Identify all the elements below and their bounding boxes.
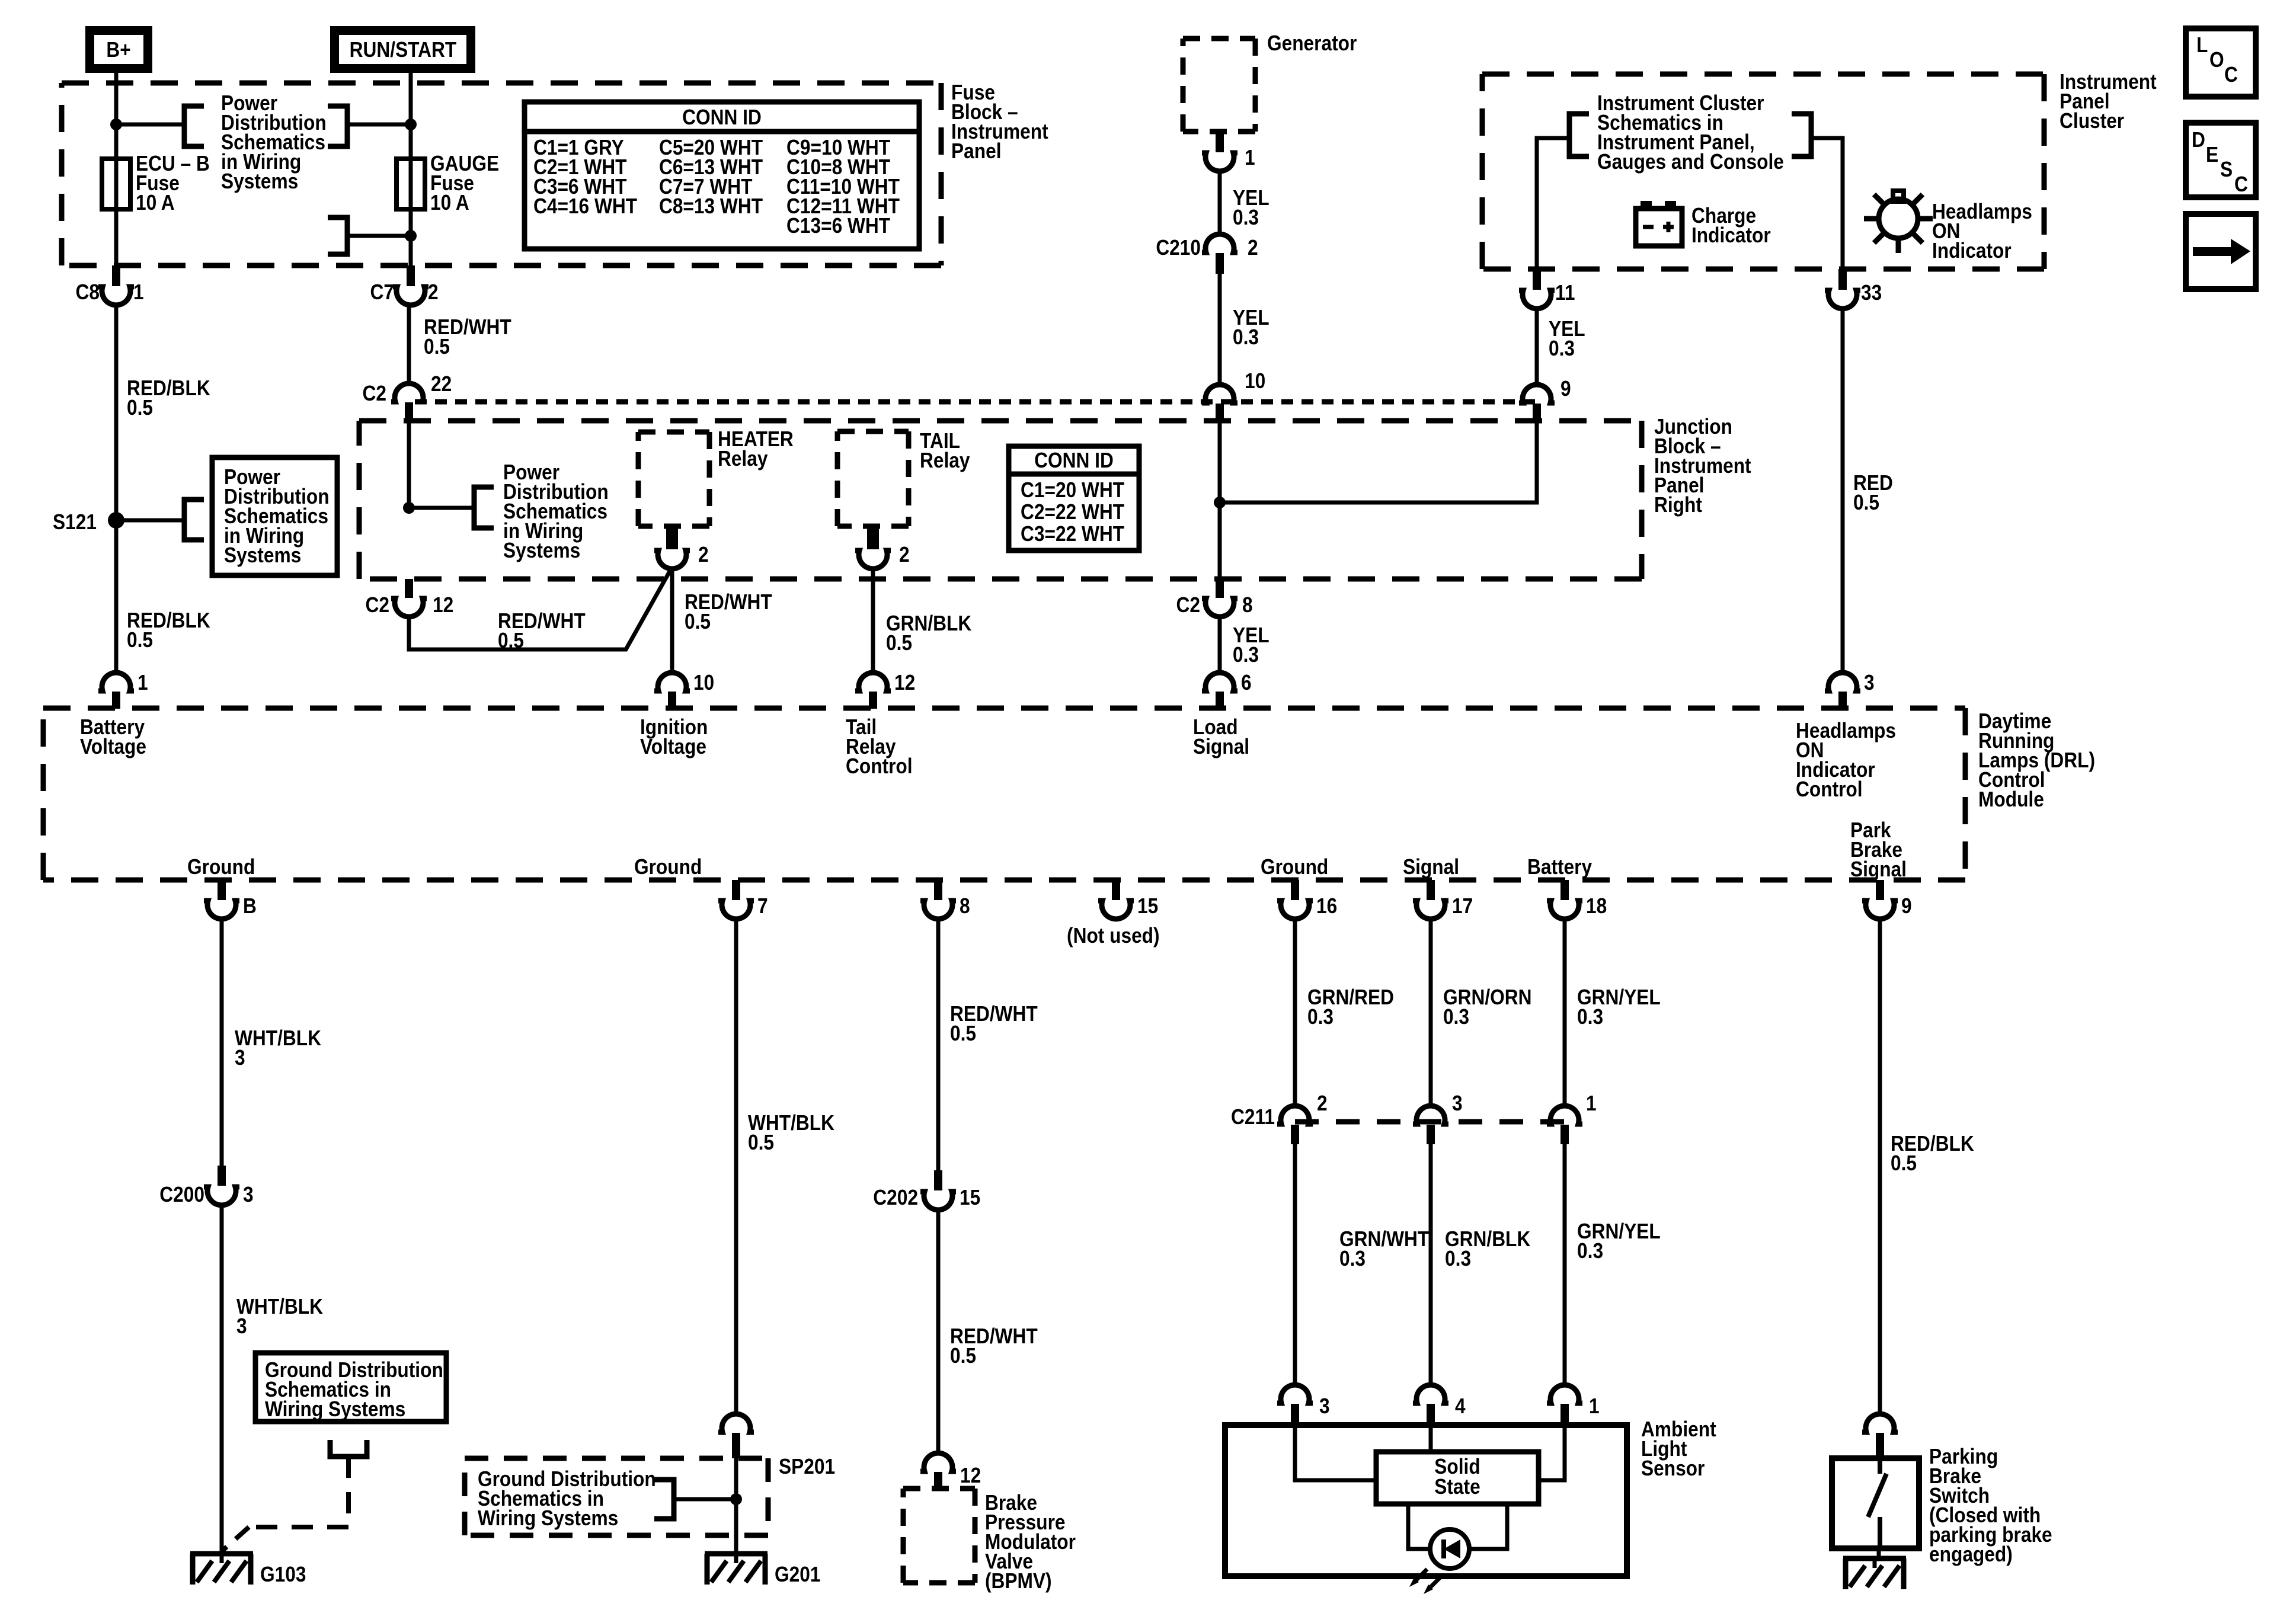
solid state box bbox=[1376, 1452, 1539, 1504]
svg-text:0.5: 0.5 bbox=[127, 628, 153, 652]
svg-text:CONN ID: CONN ID bbox=[1034, 449, 1114, 472]
generator pin 1 connector bbox=[1202, 132, 1255, 171]
wire S121 to bracket bbox=[116, 518, 184, 523]
wire label GRN/WHT 0.3 bbox=[1339, 1227, 1430, 1270]
dashed reference path to G103 bbox=[222, 1457, 348, 1551]
svg-text:Indicator: Indicator bbox=[1932, 239, 2012, 263]
svg-text:C13=6 WHT: C13=6 WHT bbox=[786, 214, 890, 238]
bracket to power distribution note (junction block) bbox=[474, 487, 494, 528]
generator dashed box bbox=[1183, 39, 1255, 132]
svg-text:Wiring Systems: Wiring Systems bbox=[265, 1397, 405, 1421]
wire C7 to C2-22 bbox=[407, 303, 411, 384]
svg-text:Battery: Battery bbox=[1527, 855, 1592, 879]
CONN ID table (junction block) bbox=[1009, 446, 1139, 550]
light arrows bbox=[1409, 1569, 1441, 1594]
wire ALS pin 4 internal bbox=[1429, 1425, 1433, 1452]
wire C200 to G103 bbox=[220, 1203, 224, 1554]
wire label WHT/BLK 3 (upper) bbox=[235, 1026, 321, 1070]
wire ALS pin 3 internal bbox=[1295, 1425, 1376, 1480]
svg-text:0.3: 0.3 bbox=[1307, 1005, 1334, 1029]
wire label YEL 0.3 (load signal) bbox=[1233, 623, 1269, 667]
TAIL relay dashed box bbox=[837, 431, 909, 526]
svg-text:Indicator: Indicator bbox=[1691, 223, 1771, 247]
wire DRL pin 8 to C202 bbox=[936, 917, 941, 1170]
svg-text:G201: G201 bbox=[775, 1563, 820, 1586]
wire heater pin2 to DRL pin 10 bbox=[670, 567, 674, 675]
wire label RED 0.5 bbox=[1853, 471, 1893, 514]
svg-text:C202: C202 bbox=[873, 1186, 918, 1209]
DRL pin 10 connector bbox=[654, 671, 714, 709]
svg-text:0.3: 0.3 bbox=[1577, 1239, 1603, 1263]
svg-text:2: 2 bbox=[698, 543, 709, 566]
charge indicator battery symbol bbox=[1636, 201, 1682, 246]
svg-text:3: 3 bbox=[236, 1314, 247, 1338]
connector C2 pin 12 bbox=[366, 579, 454, 617]
svg-text:0.5: 0.5 bbox=[1891, 1151, 1917, 1175]
svg-text:Control: Control bbox=[1796, 777, 1863, 801]
svg-text:0.3: 0.3 bbox=[1233, 206, 1259, 229]
photodiode symbol bbox=[1430, 1529, 1469, 1569]
junction node (C2 wire) bbox=[403, 502, 415, 514]
power distribution schematics note (fuse block) bbox=[221, 91, 327, 193]
DRL pin 6 connector bbox=[1202, 671, 1252, 709]
svg-text:17: 17 bbox=[1452, 894, 1473, 918]
svg-text:3: 3 bbox=[243, 1183, 254, 1206]
connector C211 pin 2 bbox=[1231, 1092, 1328, 1144]
ground G201 bbox=[705, 1554, 820, 1586]
DRL pin 15 connector bbox=[1098, 880, 1158, 919]
svg-text:Voltage: Voltage bbox=[640, 735, 706, 758]
power distribution schematics note (junction block) bbox=[503, 460, 609, 562]
svg-text:RUN/START: RUN/START bbox=[350, 38, 457, 62]
wire B+ to C8 bbox=[114, 73, 119, 265]
svg-text:Relay: Relay bbox=[920, 449, 970, 472]
splice SP201 connector bbox=[718, 1414, 835, 1478]
connector C202 pin 15 bbox=[873, 1170, 980, 1210]
wire DRL pin 18 to C211-1 bbox=[1563, 917, 1567, 1108]
wire junction pin10 to C2-8 bbox=[1218, 422, 1222, 579]
svg-text:2: 2 bbox=[428, 280, 439, 304]
svg-text:8: 8 bbox=[1242, 593, 1253, 617]
svg-text:G103: G103 bbox=[260, 1563, 306, 1586]
svg-text:engaged): engaged) bbox=[1929, 1542, 2013, 1566]
connector C211 dashed line bbox=[1295, 1119, 1565, 1125]
bracket to power distribution box bbox=[184, 500, 204, 540]
BPMV pin 12 connector bbox=[920, 1453, 981, 1489]
svg-text:3: 3 bbox=[1319, 1394, 1330, 1418]
headlamps ON indicator label bbox=[1932, 200, 2032, 263]
wire label RED/WHT 0.5 (horizontal run) bbox=[498, 609, 586, 652]
wire to power distribution bracket right bbox=[347, 123, 411, 127]
svg-text:10: 10 bbox=[1245, 369, 1265, 393]
power distribution schematics box (S121) bbox=[212, 457, 337, 575]
ALS pin 3 connector bbox=[1277, 1385, 1330, 1425]
svg-text:Generator: Generator bbox=[1267, 31, 1357, 55]
svg-text:Ground: Ground bbox=[1261, 855, 1328, 879]
IPC pin 11 connector bbox=[1519, 269, 1575, 309]
parking brake switch contacts bbox=[1868, 1458, 1886, 1548]
wire C2-12 to heater relay pin 2 bbox=[409, 567, 672, 649]
DRL pin name Tail Relay Control bbox=[846, 715, 913, 778]
wire label RED/WHT 0.5 (ignition) bbox=[685, 590, 772, 633]
ambient light sensor box bbox=[1225, 1425, 1627, 1576]
junction node on B+ wire bbox=[110, 119, 122, 130]
svg-text:3: 3 bbox=[1452, 1092, 1463, 1115]
svg-text:C7: C7 bbox=[370, 280, 394, 304]
wire bracket to pin 11 bbox=[1537, 138, 1569, 269]
wire C8 to S121 bbox=[114, 303, 119, 520]
svg-text:0.5: 0.5 bbox=[498, 629, 524, 652]
wire tail relay pin2 to DRL pin 12 bbox=[871, 567, 875, 675]
CONN ID table (fuse block) bbox=[525, 102, 919, 249]
DRL pin name Battery Voltage bbox=[80, 715, 146, 758]
svg-text:SP201: SP201 bbox=[779, 1455, 835, 1478]
parking brake switch box bbox=[1832, 1458, 1919, 1548]
svg-text:0.3: 0.3 bbox=[1549, 337, 1575, 360]
wire C2-22 down to junction bbox=[407, 422, 411, 508]
wire DRL pin 17 to C211-3 bbox=[1429, 917, 1433, 1108]
instrument cluster schematics note bbox=[1597, 91, 1784, 174]
fuse block - instrument panel dashed box bbox=[62, 83, 941, 265]
wire label WHT/BLK 0.5 bbox=[748, 1111, 834, 1154]
svg-text:2: 2 bbox=[899, 543, 910, 566]
power feed RUN/START terminal box bbox=[335, 31, 471, 69]
fuse ECU-B 10A symbol bbox=[102, 159, 130, 209]
svg-text:2: 2 bbox=[1248, 236, 1258, 260]
splice S121 bbox=[53, 510, 124, 534]
wire label YEL 0.3 (cluster) bbox=[1549, 317, 1585, 360]
instrument panel cluster dashed box bbox=[1482, 74, 2044, 269]
wire C2-8 to DRL pin 6 bbox=[1218, 614, 1222, 675]
DRL signal label (pin 17) bbox=[1403, 855, 1459, 879]
wire label YEL 0.3 (generator) bbox=[1233, 186, 1269, 229]
wire DRL pin 16 to C211-2 bbox=[1293, 917, 1297, 1108]
svg-text:0.5: 0.5 bbox=[950, 1022, 976, 1045]
svg-text:6: 6 bbox=[1241, 671, 1252, 694]
IPC pin 33 connector bbox=[1825, 269, 1882, 309]
svg-text:Systems: Systems bbox=[224, 543, 301, 567]
wire to power distribution bracket left bbox=[116, 123, 184, 127]
svg-text:0.5: 0.5 bbox=[1853, 491, 1879, 514]
DRL ground label (pin 7) bbox=[634, 855, 702, 879]
wire label GRN/YEL 0.3 (upper) bbox=[1577, 985, 1661, 1029]
svg-text:0.3: 0.3 bbox=[1339, 1247, 1366, 1270]
wire to lower bracket bbox=[347, 234, 411, 238]
svg-text:Ground: Ground bbox=[634, 855, 702, 879]
svg-text:33: 33 bbox=[1861, 281, 1882, 305]
generator label bbox=[1267, 31, 1357, 55]
svg-text:B: B bbox=[243, 894, 257, 918]
svg-text:1: 1 bbox=[137, 671, 148, 694]
wire label GRN/ORN 0.3 bbox=[1443, 985, 1532, 1029]
parking brake switch connector bbox=[1862, 1414, 1898, 1458]
wire ALS pin 1 internal bbox=[1539, 1425, 1565, 1480]
DRL pin 3 connector bbox=[1825, 671, 1875, 709]
svg-text:C8=13 WHT: C8=13 WHT bbox=[659, 194, 763, 218]
instrument cluster bracket right bbox=[1792, 114, 1811, 156]
instrument panel cluster label bbox=[2060, 70, 2157, 133]
svg-text:7: 7 bbox=[757, 894, 768, 918]
svg-text:C: C bbox=[2234, 172, 2248, 196]
ground distribution schematics box bbox=[255, 1353, 446, 1422]
brake pressure modulator valve dashed box bbox=[903, 1489, 975, 1583]
wire label RED/BLK 0.5 (upper) bbox=[127, 376, 210, 420]
svg-text:15: 15 bbox=[1137, 894, 1158, 918]
connector C8 pin 1 bbox=[76, 265, 144, 305]
svg-text:0.5: 0.5 bbox=[685, 610, 711, 633]
ALS pin 4 connector bbox=[1413, 1385, 1466, 1425]
svg-text:Systems: Systems bbox=[221, 169, 298, 193]
svg-text:Relay: Relay bbox=[718, 447, 768, 470]
svg-text:C2=22 WHT: C2=22 WHT bbox=[1021, 500, 1124, 524]
junction node SP201 bbox=[730, 1493, 742, 1505]
svg-text:D: D bbox=[2192, 128, 2205, 152]
wire C202 to BPMV bbox=[936, 1208, 941, 1455]
wire to bracket (G201 box) bbox=[674, 1497, 736, 1502]
DRL pin 15 not used label bbox=[1067, 924, 1160, 948]
wire C211-2 to ALS pin 3 bbox=[1293, 1144, 1297, 1387]
DRL ground label (pin B) bbox=[187, 855, 255, 879]
wire pin 33 to DRL pin 3 bbox=[1841, 306, 1845, 675]
connector C210 pin 2 bbox=[1156, 234, 1258, 274]
charge indicator label bbox=[1691, 204, 1771, 247]
wire DRL pin B to C200 bbox=[220, 917, 224, 1166]
svg-text:(Not used): (Not used) bbox=[1067, 924, 1160, 948]
DRL pin name Load Signal bbox=[1193, 715, 1249, 758]
svg-text:10 A: 10 A bbox=[430, 191, 469, 215]
svg-text:18: 18 bbox=[1586, 894, 1607, 918]
svg-text:0.5: 0.5 bbox=[950, 1344, 976, 1368]
svg-text:2: 2 bbox=[1317, 1092, 1328, 1115]
svg-text:22: 22 bbox=[431, 372, 452, 396]
DRL control module dashed box bbox=[43, 708, 1965, 880]
wire solid state to photodiode right bbox=[1469, 1504, 1507, 1549]
svg-text:Ground: Ground bbox=[187, 855, 255, 879]
svg-text:Control: Control bbox=[846, 754, 913, 778]
svg-text:C2: C2 bbox=[1176, 593, 1200, 617]
fuse block label bbox=[951, 81, 1048, 163]
bracket from Power Distribution Schematics (right) bbox=[328, 106, 347, 146]
wire label RED/BLK 0.5 (park brake) bbox=[1891, 1132, 1974, 1175]
ALS pin 1 connector bbox=[1547, 1385, 1600, 1425]
wire solid state to photodiode left bbox=[1408, 1504, 1430, 1549]
svg-text:9: 9 bbox=[1901, 894, 1912, 918]
connector C7 pin 2 bbox=[370, 265, 439, 305]
svg-text:C: C bbox=[2224, 63, 2238, 87]
wire label RED/WHT 0.5 (upper run) bbox=[950, 1002, 1038, 1045]
DRL pin name Headlamps ON Indicator Control bbox=[1796, 719, 1896, 801]
DRL control module label bbox=[1978, 709, 2095, 811]
bracket to Power Distribution Schematics (left) bbox=[184, 106, 204, 146]
DRL pin 16 connector bbox=[1277, 880, 1337, 919]
HEATER relay label bbox=[718, 427, 794, 470]
wire generator to C210 bbox=[1218, 169, 1222, 236]
svg-text:3: 3 bbox=[1864, 671, 1875, 694]
svg-text:8: 8 bbox=[960, 894, 970, 918]
wire label RED/WHT 0.5 (C7) bbox=[424, 315, 511, 359]
svg-text:B+: B+ bbox=[106, 38, 130, 62]
svg-text:0.3: 0.3 bbox=[1577, 1005, 1603, 1029]
svg-text:Wiring Systems: Wiring Systems bbox=[478, 1506, 618, 1530]
wire junction to bracket (junction block) bbox=[409, 506, 474, 510]
DRL pin 7 connector bbox=[718, 880, 768, 919]
svg-text:0.3: 0.3 bbox=[1233, 643, 1259, 667]
svg-text:S: S bbox=[2220, 158, 2233, 181]
connector C211 pin 1 bbox=[1547, 1092, 1597, 1144]
BPMV label bbox=[985, 1491, 1076, 1593]
svg-text:L: L bbox=[2196, 33, 2208, 57]
wire junction pin 9 down and across bbox=[1220, 422, 1537, 502]
svg-text:C8: C8 bbox=[76, 280, 100, 304]
svg-text:Signal: Signal bbox=[1193, 735, 1249, 758]
svg-text:0.5: 0.5 bbox=[748, 1131, 774, 1154]
junction node on RUN/START wire upper bbox=[405, 119, 417, 130]
wire C211-3 to ALS pin 4 bbox=[1429, 1144, 1433, 1387]
junction node (load signal) bbox=[1214, 497, 1226, 508]
DRL ground label (pin 16) bbox=[1261, 855, 1328, 879]
svg-text:0.5: 0.5 bbox=[127, 396, 153, 420]
svg-text:16: 16 bbox=[1316, 894, 1337, 918]
svg-text:(BPMV): (BPMV) bbox=[985, 1569, 1052, 1593]
wire C211-1 to ALS pin 1 bbox=[1563, 1144, 1567, 1387]
fuse ECU-B label bbox=[136, 152, 210, 215]
power feed B+ terminal box bbox=[90, 31, 148, 69]
svg-text:9: 9 bbox=[1560, 377, 1571, 401]
HEATER relay dashed box bbox=[638, 432, 709, 526]
junction block pin 9 connector bbox=[1519, 377, 1571, 422]
svg-text:1: 1 bbox=[1586, 1092, 1597, 1115]
connector C2 pin 8 bbox=[1176, 579, 1252, 617]
svg-text:11: 11 bbox=[1555, 281, 1575, 305]
fuse GAUGE 10A symbol bbox=[396, 159, 425, 209]
ambient light sensor label bbox=[1641, 1417, 1716, 1480]
junction block pin 10 connector bbox=[1202, 369, 1265, 422]
wire DRL pin 7 to SP201 bbox=[734, 917, 738, 1416]
DRL pin 18 connector bbox=[1547, 880, 1607, 919]
svg-text:0.3: 0.3 bbox=[1233, 325, 1259, 349]
DRL pin 17 connector bbox=[1413, 880, 1473, 919]
wire label RED/BLK 0.5 (lower) bbox=[127, 609, 210, 652]
svg-text:O: O bbox=[2209, 48, 2224, 72]
svg-text:1: 1 bbox=[133, 280, 144, 304]
DRL pin 9 connector bbox=[1862, 880, 1912, 919]
wire label YEL 0.3 (C210) bbox=[1233, 306, 1269, 349]
instrument cluster bracket left bbox=[1569, 114, 1589, 156]
svg-text:Voltage: Voltage bbox=[80, 735, 146, 758]
svg-text:C2: C2 bbox=[363, 382, 386, 405]
svg-text:State: State bbox=[1434, 1475, 1480, 1499]
wire RUN/START to C7 bbox=[409, 73, 413, 265]
wire label GRN/BLK 0.5 bbox=[886, 612, 972, 655]
wire SP201 into box bbox=[734, 1458, 738, 1554]
svg-text:Module: Module bbox=[1978, 788, 2044, 811]
wire label GRN/RED 0.3 bbox=[1307, 985, 1394, 1029]
wire label RED/WHT 0.5 (lower run) bbox=[950, 1324, 1038, 1368]
DRL pin B connector bbox=[204, 880, 257, 919]
wire bracket to pin 33 bbox=[1811, 138, 1843, 269]
svg-text:4: 4 bbox=[1455, 1394, 1466, 1418]
svg-text:C2: C2 bbox=[366, 593, 389, 617]
svg-text:1: 1 bbox=[1589, 1394, 1600, 1418]
svg-text:Systems: Systems bbox=[503, 539, 580, 562]
bracket in G201 box bbox=[654, 1480, 674, 1519]
svg-text:S121: S121 bbox=[53, 510, 97, 534]
svg-text:C200: C200 bbox=[159, 1183, 204, 1206]
ground G103 bbox=[190, 1554, 306, 1586]
junction block label bbox=[1654, 415, 1751, 517]
svg-text:12: 12 bbox=[894, 671, 915, 694]
svg-text:Panel: Panel bbox=[951, 139, 1001, 163]
DRL pin 8 connector bbox=[920, 880, 970, 919]
svg-text:1: 1 bbox=[1245, 146, 1255, 169]
svg-text:10: 10 bbox=[693, 671, 714, 694]
DESC reference box bbox=[2186, 123, 2256, 197]
svg-text:C211: C211 bbox=[1231, 1105, 1275, 1129]
junction node on RUN/START wire lower bbox=[405, 230, 417, 242]
wire label GRN/YEL 0.3 (lower) bbox=[1577, 1219, 1661, 1263]
svg-text:WHT/BLK: WHT/BLK bbox=[236, 1295, 323, 1318]
junction block dashed box bbox=[359, 421, 1642, 579]
svg-text:Right: Right bbox=[1654, 493, 1702, 517]
junction block connector dotted line C2 bbox=[415, 399, 1537, 405]
wire S121 to DRL pin 1 bbox=[114, 520, 119, 675]
ground distribution dashed box (G201) bbox=[465, 1458, 768, 1535]
svg-text:0.5: 0.5 bbox=[424, 335, 450, 359]
wire DRL pin 9 to parking brake switch bbox=[1878, 917, 1882, 1416]
svg-text:C4=16 WHT: C4=16 WHT bbox=[533, 194, 637, 218]
svg-text:C1=20 WHT: C1=20 WHT bbox=[1021, 478, 1124, 502]
wire label GRN/BLK 0.3 bbox=[1445, 1227, 1531, 1270]
svg-text:0.5: 0.5 bbox=[886, 631, 912, 655]
headlamps ON indicator lamp symbol bbox=[1864, 191, 1933, 253]
svg-text:0.3: 0.3 bbox=[1443, 1005, 1469, 1029]
svg-text:12: 12 bbox=[433, 593, 453, 617]
DRL pin 1 connector bbox=[98, 671, 148, 709]
LOC reference box bbox=[2186, 28, 2256, 97]
svg-text:E: E bbox=[2206, 143, 2218, 167]
connector C211 pin 3 bbox=[1413, 1092, 1463, 1144]
svg-text:C3=22 WHT: C3=22 WHT bbox=[1021, 522, 1124, 546]
connector C2 pin 22 bbox=[363, 372, 452, 422]
svg-text:C210: C210 bbox=[1156, 236, 1201, 260]
svg-text:12: 12 bbox=[960, 1464, 981, 1487]
svg-text:Gauges and Console: Gauges and Console bbox=[1597, 150, 1784, 174]
svg-text:Signal: Signal bbox=[1403, 855, 1459, 879]
fuse GAUGE label bbox=[430, 152, 499, 215]
wire C210 to junction block pin 10 bbox=[1218, 274, 1222, 385]
parking brake ground bbox=[1843, 1548, 1906, 1589]
DRL pin 12 connector bbox=[855, 671, 915, 709]
svg-text:Signal: Signal bbox=[1850, 857, 1907, 881]
svg-text:CONN ID: CONN ID bbox=[682, 105, 762, 129]
arrow navigation box bbox=[2186, 214, 2256, 289]
svg-text:15: 15 bbox=[960, 1186, 980, 1209]
wire pin 11 to junction pin 9 bbox=[1535, 306, 1539, 385]
svg-text:3: 3 bbox=[235, 1046, 245, 1070]
svg-text:Cluster: Cluster bbox=[2060, 109, 2124, 133]
DRL battery label (pin 18) bbox=[1527, 855, 1592, 879]
parking brake switch label bbox=[1929, 1445, 2052, 1566]
svg-text:WHT/BLK: WHT/BLK bbox=[235, 1026, 321, 1050]
svg-text:10 A: 10 A bbox=[136, 191, 175, 215]
connector C200 pin 3 bbox=[159, 1166, 253, 1206]
bracket below ground distribution box bbox=[330, 1440, 367, 1457]
wire label WHT/BLK 3 (lower) bbox=[236, 1295, 323, 1338]
DRL pin name Park Brake Signal bbox=[1850, 818, 1907, 881]
lower bracket (gauge fuse feed) bbox=[328, 217, 347, 254]
tail relay pin 2 connector bbox=[855, 526, 910, 569]
heater relay pin 2 connector bbox=[654, 526, 709, 569]
